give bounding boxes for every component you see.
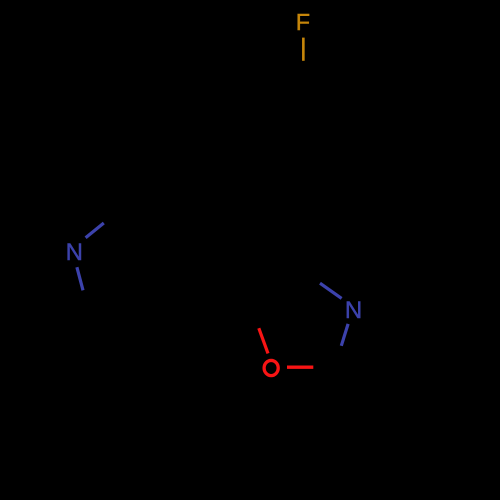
bond N3-C2 of oxazoline ring (nitrogen half), down-left stub	[341, 324, 348, 346]
bond C-F (fluorine half), vertical stub below F	[302, 38, 305, 61]
bond O1-C5 of oxazoline ring (oxygen half), up-left stub	[259, 328, 268, 353]
svg-text:N: N	[66, 239, 83, 266]
bond N1-C2 of pyridine ring (nitrogen half), up-right stub	[86, 223, 104, 238]
bond N1-C6 of pyridine ring (nitrogen half), downward stub	[77, 267, 83, 290]
bond N3-C4 of oxazoline ring (nitrogen half), up-left stub	[320, 283, 342, 298]
oxygen atom label O	[264, 360, 278, 375]
bond O1-C2 of oxazoline ring (oxygen half), horizontal right stub	[287, 366, 313, 369]
svg-text:F: F	[296, 9, 310, 35]
svg-text:N: N	[345, 297, 362, 324]
